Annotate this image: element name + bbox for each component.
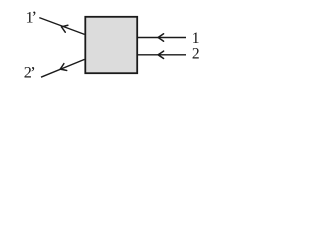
svg-text:2: 2 [192,46,200,63]
svg-text:1: 1 [192,30,200,47]
svg-text:’: ’ [30,63,36,82]
svg-text:’: ’ [31,7,37,26]
